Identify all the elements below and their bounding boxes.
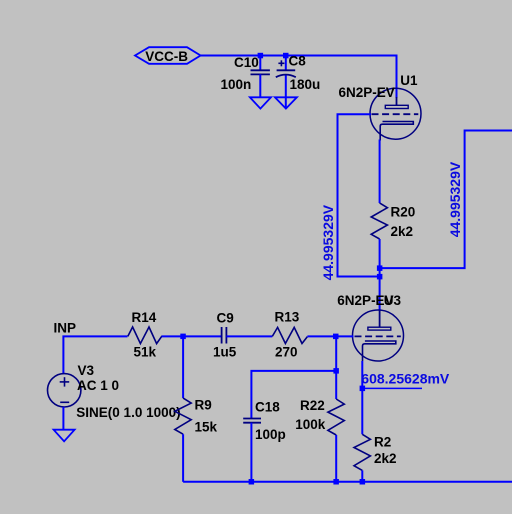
svg-text:R22: R22 (300, 398, 325, 413)
wire C18 top (251, 371, 336, 418)
junction C8 top (283, 53, 289, 59)
node junction C18/R22 (333, 368, 339, 374)
svg-text:15k: 15k (195, 420, 218, 435)
svg-text:U1: U1 (400, 73, 418, 88)
wire R13 to U3 grid (307, 335, 353, 337)
resistor R14 (128, 327, 162, 344)
capacitor C9 (222, 327, 227, 344)
svg-text:C8: C8 (289, 54, 307, 69)
resistor R9 (175, 398, 191, 434)
wire R9 top (182, 336, 184, 398)
wire R22 top (335, 336, 337, 399)
wire node A to right edge (380, 131, 512, 269)
svg-text:51k: 51k (134, 345, 157, 360)
voltage source V3 (47, 374, 80, 407)
wire V3 to ground (62, 407, 64, 430)
wire top rail VCC-B to U1 plate (201, 56, 397, 99)
svg-text:R2: R2 (374, 435, 391, 450)
wire C18 bottom (250, 423, 252, 481)
capacitor C8 (polarized) (276, 58, 296, 108)
wire R20 bottom to U3 plate (379, 239, 381, 310)
svg-text:2k2: 2k2 (391, 224, 414, 239)
svg-text:R13: R13 (275, 309, 300, 324)
wire R22 bottom (335, 435, 337, 482)
svg-text:180u: 180u (290, 77, 321, 92)
svg-text:V3: V3 (78, 363, 95, 378)
resistor R22 (328, 399, 344, 435)
wire bottom rail (183, 481, 512, 483)
svg-text:6N2P-EV: 6N2P-EV (339, 85, 395, 100)
node A junction (R20 bottom / right wire) (377, 265, 383, 271)
node junction C18 bottom (249, 479, 255, 485)
flag VCC-B (135, 47, 201, 64)
capacitor C18 (243, 419, 261, 423)
svg-text:R20: R20 (391, 205, 416, 220)
node C junction (cathode) (360, 386, 366, 392)
svg-text:INP: INP (54, 320, 77, 335)
svg-text:C10: C10 (234, 55, 259, 70)
wire C9 to R13 (226, 335, 272, 337)
svg-text:2k2: 2k2 (374, 451, 397, 466)
resistor R20 (371, 203, 387, 239)
junction C10 top (258, 53, 264, 59)
wire INP to R14 (63, 336, 127, 373)
svg-text:R9: R9 (195, 398, 212, 413)
node junction R2 bottom (360, 479, 366, 485)
op-amp U1 (triode tube) (370, 88, 421, 140)
resistor R2 (354, 434, 370, 470)
wire R14 to junction (162, 335, 222, 337)
wire U1 grid to node B (338, 114, 380, 276)
wire U3 cathode down to R2 (361, 361, 363, 434)
node junction R14/R9/C9 (180, 334, 186, 340)
ground C10 (250, 97, 271, 108)
wire node C stub (362, 387, 422, 389)
svg-text:100k: 100k (295, 417, 326, 432)
capacitor C10 (251, 58, 270, 97)
svg-text:C9: C9 (217, 310, 234, 325)
wire R2 bottom (361, 470, 363, 481)
svg-text:6N2P-EV: 6N2P-EV (337, 293, 393, 308)
svg-text:C18: C18 (255, 400, 280, 415)
svg-text:1u5: 1u5 (213, 345, 237, 360)
svg-text:608.25628mV: 608.25628mV (361, 371, 450, 387)
wire U1 cathode to R20 (379, 140, 381, 204)
svg-text:44.995329V: 44.995329V (447, 161, 463, 237)
svg-text:SINE(0 1.0 1000): SINE(0 1.0 1000) (76, 405, 180, 420)
svg-text:44.995329V: 44.995329V (320, 204, 336, 280)
svg-text:100p: 100p (255, 427, 286, 442)
svg-text:100n: 100n (221, 77, 252, 92)
transistor U3 (triode tube) (353, 310, 404, 361)
svg-text:AC 1 0: AC 1 0 (77, 378, 119, 393)
ground V3 (54, 430, 75, 442)
node junction R22 bottom (333, 479, 339, 485)
ground C8 (275, 97, 297, 108)
svg-text:R14: R14 (132, 310, 157, 325)
node B junction (U1 grid wire) (377, 274, 383, 280)
svg-text:270: 270 (275, 345, 298, 360)
svg-text:VCC-B: VCC-B (145, 49, 188, 64)
resistor R13 (272, 327, 307, 343)
wire R9 bottom (182, 434, 184, 482)
node junction R13/R22/U3 (333, 334, 339, 340)
